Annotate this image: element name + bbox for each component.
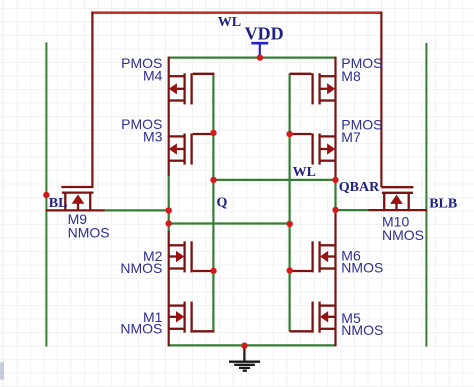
wire left inverter gates vertical (to QBAR) (212, 73, 214, 331)
junction dot VDD (257, 54, 263, 60)
wire WL top horizontal (91, 11, 382, 14)
wire BLB vertical (425, 43, 427, 347)
net label BL (49, 196, 68, 211)
wire BL vertical (45, 42, 47, 346)
junction dot BL (43, 192, 49, 198)
junction dot node Q tap (166, 220, 172, 226)
wire WL right drop to M10 gate (380, 12, 382, 187)
transistor M6 NMOS (290, 241, 336, 272)
wire ground rail (168, 344, 335, 346)
label PMOS M3 (121, 116, 162, 145)
wire M10 source to BLB (maroon part) (369, 209, 428, 211)
scrollbar smudge bottom-left (0, 362, 4, 380)
net label Q (217, 196, 228, 211)
svg-text:M7: M7 (341, 129, 361, 145)
label PMOS M4 (121, 55, 162, 84)
wire WL left drop to M9 gate (91, 12, 93, 187)
wire M9 to Q node (green part) (104, 209, 169, 211)
label M9 NMOS (68, 211, 110, 241)
transistor M4 PMOS (169, 73, 215, 104)
net label WL (middle) (293, 165, 316, 180)
junction dot M10 drain (332, 207, 338, 213)
transistor M8 PMOS (290, 73, 336, 104)
transistor M2 NMOS (169, 241, 215, 272)
wire left column maroon upper (VDD through M4/M3) (168, 57, 170, 176)
svg-text:WL: WL (293, 165, 316, 180)
label PMOS M8 (341, 55, 382, 84)
wire M9 source to BL (maroon part) (46, 209, 105, 211)
ground symbol (229, 348, 260, 371)
svg-text:WL: WL (218, 15, 241, 30)
junction dot M7 gate (286, 131, 292, 137)
wire right column maroon upper (VDD through M8/M7) (334, 57, 336, 180)
wire QBAR horizontal (213, 179, 335, 181)
junction dot ground (241, 343, 247, 349)
junction dot M2 gate (210, 268, 216, 274)
net label BLB (429, 196, 457, 211)
svg-text:NMOS: NMOS (68, 225, 110, 241)
svg-text:BL: BL (49, 196, 68, 211)
transistor M3 PMOS (169, 134, 215, 165)
label M1 NMOS (120, 309, 162, 337)
junction dot M3 gate (210, 130, 216, 136)
label M10 NMOS (382, 214, 424, 244)
svg-text:M3: M3 (143, 129, 163, 145)
junction dot QBAR at left gates line (210, 177, 216, 183)
wire right inverter output vertical (green part) (334, 180, 336, 210)
transistor M1 NMOS (169, 302, 215, 333)
wire M10 to QBAR node (green part) (336, 209, 370, 211)
wire VDD rail (168, 56, 336, 58)
wire left column maroon lower (through M2/M1 to ground) (168, 231, 170, 346)
svg-text:NMOS: NMOS (120, 260, 162, 276)
wire node Q horizontal (169, 222, 290, 224)
wire left inverter output vertical (green part) (168, 176, 170, 232)
transistor M7 PMOS (290, 134, 336, 165)
label M6 NMOS (341, 247, 383, 275)
svg-text:NMOS: NMOS (341, 260, 383, 276)
svg-text:BLB: BLB (429, 196, 457, 211)
transistor M5 NMOS (290, 302, 336, 333)
svg-text:M8: M8 (341, 68, 361, 84)
wire right column maroon lower (through M6/M5 to ground) (334, 210, 336, 347)
net label VDD (245, 24, 284, 44)
label PMOS M7 (341, 116, 382, 145)
svg-text:NMOS: NMOS (382, 227, 424, 243)
net label WL (top) (218, 15, 241, 30)
label M2 NMOS (120, 248, 162, 276)
junction dot M6 gate (287, 267, 293, 273)
wire right inverter gates vertical (to Q) (289, 73, 291, 331)
transistor M9 NMOS (access, horizontal) (61, 187, 93, 211)
junction dot node Q right end (287, 221, 293, 227)
junction dot QBAR tap (332, 177, 338, 183)
net label QBAR (339, 180, 380, 195)
svg-text:VDD: VDD (245, 24, 284, 44)
label M5 NMOS (341, 310, 383, 338)
junction dot M9 drain at Q line (166, 207, 172, 213)
transistor M10 NMOS (access, horizontal) (381, 187, 413, 211)
svg-text:Q: Q (217, 196, 228, 211)
svg-text:NMOS: NMOS (341, 322, 383, 338)
power VDD symbol (251, 43, 268, 57)
svg-text:NMOS: NMOS (120, 321, 162, 337)
svg-text:M4: M4 (143, 68, 163, 84)
svg-text:QBAR: QBAR (339, 180, 380, 195)
